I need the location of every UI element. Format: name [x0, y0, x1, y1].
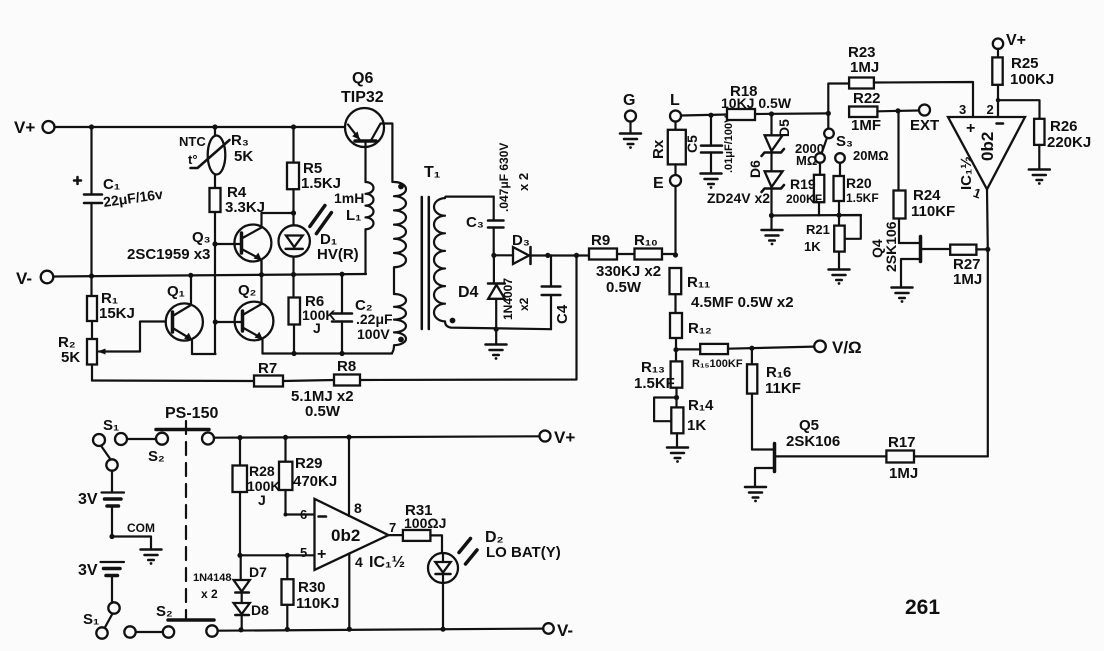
resistor R31	[388, 530, 442, 553]
resistor R7	[254, 376, 283, 387]
svg-text:R22: R22	[853, 90, 881, 107]
svg-text:0.5W: 0.5W	[606, 279, 642, 296]
svg-text:R29: R29	[295, 455, 323, 472]
svg-text:1K: 1K	[804, 239, 821, 254]
svg-text:.01μF/100V: .01μF/100V	[723, 115, 735, 173]
junction R29/pin6 corner	[284, 513, 288, 517]
transformer T1 primary winding top	[394, 182, 406, 294]
svg-text:L₁: L₁	[346, 207, 361, 224]
svg-text:V/Ω: V/Ω	[832, 338, 862, 357]
svg-text:D4: D4	[458, 284, 479, 301]
svg-text:15KJ: 15KJ	[99, 305, 135, 322]
zener diode D5	[762, 114, 785, 171]
transistor Q1	[166, 275, 216, 354]
svg-text:110KJ: 110KJ	[296, 595, 339, 612]
svg-text:0b2: 0b2	[331, 526, 360, 545]
svg-text:D6: D6	[747, 160, 763, 178]
junction R22/R24	[895, 108, 900, 113]
svg-text:S₁: S₁	[83, 611, 99, 628]
junction V-/Q3 emitter	[259, 272, 264, 277]
junction V+/NTC	[212, 124, 217, 129]
resistor R26	[1034, 119, 1044, 169]
resistor R11	[670, 268, 682, 313]
wire E to R11	[674, 186, 676, 256]
svg-text:R28: R28	[249, 463, 275, 479]
svg-text:IC₁½: IC₁½	[958, 156, 975, 190]
junction R12/R13/R15	[673, 347, 678, 352]
svg-text:5K: 5K	[234, 148, 253, 165]
resistor R17	[886, 451, 914, 463]
svg-text:D7: D7	[249, 564, 267, 580]
transistor Q3	[215, 213, 271, 275]
T1 secondary phase dot	[450, 318, 456, 324]
junction D5 tap	[769, 111, 774, 116]
svg-text:1.5KF: 1.5KF	[634, 375, 675, 392]
svg-text:R₁₀: R₁₀	[634, 232, 658, 249]
resistor R9	[589, 249, 617, 260]
resistor R6	[289, 275, 301, 354]
svg-text:S₁: S₁	[103, 417, 119, 434]
op-amp U1a (IC1 1/2 062)	[948, 117, 1025, 189]
resistor R25	[992, 49, 1002, 117]
ground Q4	[892, 288, 913, 303]
node V+ (battery section)	[540, 428, 576, 447]
svg-text:R₁4: R₁4	[688, 397, 714, 414]
svg-text:Q₃: Q₃	[192, 229, 211, 246]
ground R21	[829, 270, 850, 285]
ground R26	[1029, 170, 1050, 185]
capacitor C1	[74, 127, 102, 275]
wire R25/R26	[998, 100, 1040, 119]
junction V+/C1	[89, 124, 94, 129]
junction C5 tap	[708, 113, 713, 118]
junction D6 ground	[769, 213, 774, 218]
LED D2	[428, 539, 477, 630]
svg-text:4.5MF 0.5W x2: 4.5MF 0.5W x2	[691, 294, 794, 311]
junction E/R10/R11	[673, 252, 678, 257]
svg-text:V-: V-	[16, 269, 32, 288]
junction R30 top	[285, 553, 290, 558]
svg-text:R₁₂: R₁₂	[688, 320, 712, 337]
ground D6	[762, 216, 783, 246]
ground Q5	[745, 487, 766, 502]
junction feedback tap	[574, 253, 579, 258]
svg-text:HV(R): HV(R)	[317, 246, 359, 263]
svg-text:V-: V-	[557, 621, 573, 640]
svg-text:C₃: C₃	[466, 214, 484, 231]
op-amp U1b (IC1 1/2 062)	[315, 499, 389, 570]
svg-text:R₁6: R₁6	[766, 364, 791, 381]
svg-text:R26: R26	[1050, 118, 1078, 135]
resistor R13	[671, 361, 683, 407]
transformer T1 core	[422, 197, 429, 329]
svg-text:V+: V+	[1006, 32, 1026, 49]
wire V+ rail	[55, 126, 349, 128]
svg-text:Q₂: Q₂	[238, 282, 256, 299]
resistor R16	[747, 348, 757, 449]
svg-text:R25: R25	[1011, 55, 1039, 72]
svg-text:1N4007: 1N4007	[501, 278, 515, 320]
wire S1-S2 top	[127, 438, 156, 440]
node E	[653, 175, 681, 192]
svg-text:20MΩ: 20MΩ	[853, 148, 889, 163]
junction R18/R23/S3	[826, 111, 831, 116]
junction R25/pin2	[996, 98, 1000, 102]
svg-text:Q5: Q5	[799, 417, 819, 434]
LED D1	[279, 206, 332, 276]
svg-text:1MJ: 1MJ	[953, 271, 982, 288]
wire COM	[112, 537, 151, 549]
svg-text:x 2: x 2	[201, 587, 218, 601]
svg-text:D₃: D₃	[512, 232, 530, 249]
svg-text:470KJ: 470KJ	[293, 473, 337, 490]
svg-text:x2: x2	[517, 297, 531, 311]
svg-text:TIP32: TIP32	[341, 89, 384, 106]
resistor R18	[727, 109, 828, 120]
junction V+/R5	[291, 124, 296, 129]
resistor R19	[814, 163, 824, 216]
junction pin4 bottom	[347, 627, 352, 632]
junction R21 top	[836, 213, 841, 218]
junction V-/C2	[339, 272, 344, 277]
potentiometer R2	[87, 322, 172, 381]
ground COM	[141, 550, 162, 565]
svg-text:T₁: T₁	[424, 164, 441, 181]
resistor R5	[287, 127, 299, 213]
svg-text:LO BAT(Y): LO BAT(Y)	[486, 544, 561, 561]
wire Q3-base to Q2-base vertical	[214, 244, 216, 354]
svg-text:Rx: Rx	[650, 139, 667, 159]
svg-text:R30: R30	[298, 579, 326, 596]
junction C3/D3/D4	[491, 253, 496, 258]
svg-text:3: 3	[959, 102, 966, 117]
resistor R4	[210, 188, 221, 244]
svg-text:S₂: S₂	[156, 603, 173, 620]
svg-text:PS-150: PS-150	[165, 405, 218, 422]
svg-text:100V: 100V	[357, 326, 390, 342]
junction D2 bottom	[440, 627, 445, 632]
svg-text:NTC: NTC	[179, 134, 206, 149]
junction COM	[109, 534, 114, 539]
resistor R28	[233, 438, 248, 556]
ground C5	[701, 174, 722, 189]
resistor R20	[834, 163, 844, 215]
svg-text:J: J	[313, 320, 321, 336]
switch S1 bottom	[96, 602, 119, 638]
svg-text:3V: 3V	[78, 562, 98, 579]
svg-text:0.5W: 0.5W	[305, 403, 341, 420]
battery B2 3V	[101, 562, 125, 602]
svg-text:1N4148: 1N4148	[193, 572, 232, 584]
resistor R30	[282, 555, 294, 629]
switch S1 top	[93, 433, 127, 471]
svg-text:10KJ 0.5W: 10KJ 0.5W	[721, 95, 792, 111]
svg-text:R19: R19	[790, 176, 816, 192]
svg-text:R7: R7	[258, 360, 277, 377]
svg-text:MΩ: MΩ	[796, 153, 817, 168]
ground G	[620, 122, 641, 149]
svg-text:+: +	[317, 546, 326, 563]
resistor R29	[279, 437, 315, 514]
junction D4 ground	[494, 327, 499, 332]
switch S2 bottom	[124, 620, 217, 638]
svg-text:R24: R24	[913, 187, 941, 204]
svg-text:110KF: 110KF	[911, 203, 955, 220]
junction R29 top	[283, 435, 288, 440]
resistor R1	[87, 276, 97, 339]
svg-text:.047μF 630V: .047μF 630V	[497, 143, 511, 212]
svg-text:1.5KF: 1.5KF	[846, 191, 879, 205]
junction V-/D1	[291, 272, 296, 277]
transformer T1 secondary winding	[434, 197, 551, 330]
capacitor C5	[701, 115, 722, 172]
zener diode D6	[762, 171, 785, 215]
svg-text:E: E	[653, 175, 664, 192]
node V+ (top right)	[993, 32, 1026, 49]
battery B1 3V	[102, 471, 125, 537]
svg-text:R9: R9	[591, 232, 610, 249]
svg-text:2SC1959 x3: 2SC1959 x3	[127, 246, 210, 263]
junction D8 bottom	[238, 627, 243, 632]
junction R16 tap	[749, 346, 754, 351]
svg-text:R17: R17	[888, 434, 916, 451]
resistor R12	[670, 313, 682, 361]
junction pin8 top	[346, 435, 351, 440]
svg-text:R20: R20	[846, 175, 872, 191]
svg-text:x 2: x 2	[516, 173, 531, 191]
capacitor C4	[542, 255, 561, 329]
svg-text:R21: R21	[806, 222, 830, 237]
svg-text:220KJ: 220KJ	[1047, 134, 1091, 151]
svg-text:11KF: 11KF	[765, 380, 801, 397]
ground T1 secondary	[486, 329, 507, 360]
potentiometer R21	[834, 215, 861, 268]
junction R28 top	[237, 435, 242, 440]
wire pin5	[240, 554, 315, 556]
svg-text:1K: 1K	[687, 417, 706, 434]
svg-text:2: 2	[987, 102, 994, 117]
junction Q3 base	[212, 241, 217, 246]
svg-text:Q6: Q6	[352, 70, 373, 87]
resistor Rx	[668, 122, 686, 176]
wire D6/R19/R21 bottoms	[772, 214, 862, 217]
wire R9-R10	[617, 253, 635, 255]
svg-text:2SK106: 2SK106	[786, 433, 840, 450]
svg-text:R₁₅100KF: R₁₅100KF	[692, 358, 743, 370]
svg-text:V+: V+	[554, 428, 575, 447]
switch S3	[815, 113, 845, 162]
svg-text:t°: t°	[188, 152, 198, 167]
svg-text:G: G	[623, 92, 635, 109]
diode D4	[488, 255, 505, 329]
svg-text:COM: COM	[127, 521, 155, 535]
svg-text:S₂: S₂	[148, 448, 165, 465]
svg-text:C4: C4	[554, 304, 571, 324]
svg-text:261: 261	[905, 596, 940, 619]
svg-text:3.3KJ: 3.3KJ	[225, 199, 265, 216]
svg-text:330KJ x2: 330KJ x2	[596, 263, 661, 280]
svg-text:D5: D5	[776, 119, 792, 137]
svg-text:0b2: 0b2	[978, 132, 997, 161]
svg-text:2SK106: 2SK106	[883, 221, 899, 272]
svg-text:S₃: S₃	[836, 133, 853, 150]
svg-text:4: 4	[355, 554, 363, 570]
junction Q2 base	[213, 319, 218, 324]
wire R10 to E node	[662, 253, 676, 255]
svg-text:J: J	[258, 492, 266, 508]
wire V+ rail (battery section)	[214, 436, 540, 437]
svg-text:1MF: 1MF	[851, 117, 881, 134]
ground R14	[667, 448, 688, 463]
junction V-/Q1 collector	[188, 273, 193, 278]
resistor R24	[894, 111, 906, 243]
junction R6 bottom	[291, 351, 296, 356]
node V+	[14, 118, 55, 137]
wire U1b pin 8	[348, 437, 350, 516]
resistor R8	[334, 375, 360, 386]
svg-text:R₁₃: R₁₃	[641, 359, 665, 376]
diode D3	[494, 247, 589, 264]
svg-text:C5: C5	[684, 135, 700, 153]
T1 primary phase dot bottom	[398, 337, 404, 343]
wire emitter rail y353	[263, 352, 393, 354]
diode D8	[234, 603, 250, 630]
junction R13/R14	[674, 395, 679, 400]
resistor R23	[828, 78, 973, 118]
svg-text:V+: V+	[14, 118, 35, 137]
transistor Q6	[345, 108, 392, 182]
svg-text:1mH: 1mH	[334, 190, 364, 206]
svg-text:R8: R8	[337, 358, 356, 375]
svg-text:6: 6	[300, 507, 307, 522]
junction D1 top	[262, 210, 297, 215]
svg-text:7: 7	[389, 520, 396, 535]
diode D7	[234, 555, 250, 603]
transistor Q4 (JFET)	[899, 237, 950, 287]
svg-text:+: +	[966, 120, 975, 137]
junction C2 bottom	[339, 351, 344, 356]
wire feedback R7/R8	[92, 255, 577, 381]
node EXT	[910, 105, 939, 135]
node G	[623, 92, 636, 122]
svg-text:100KJ: 100KJ	[1010, 71, 1054, 88]
svg-text:EXT: EXT	[910, 117, 939, 134]
wire L to R18	[681, 115, 727, 116]
svg-text:D8: D8	[251, 602, 269, 618]
svg-text:1MJ: 1MJ	[889, 465, 918, 482]
resistor R27	[950, 245, 988, 255]
resistor R15	[676, 344, 814, 354]
svg-text:8: 8	[354, 500, 362, 516]
svg-text:200KF: 200KF	[786, 192, 822, 206]
svg-text:C₁: C₁	[103, 176, 120, 193]
junction pin5	[237, 553, 242, 558]
switch S2 top	[156, 430, 214, 445]
resistor R22	[849, 107, 919, 118]
transformer T1 primary winding bottom	[392, 294, 406, 353]
svg-text:5K: 5K	[61, 349, 80, 366]
junction C4 top	[545, 253, 550, 258]
svg-text:.22μF: .22μF	[356, 311, 393, 327]
transistor Q5 (JFET)	[752, 444, 886, 486]
junction R27/output	[985, 247, 990, 252]
svg-text:100ΩJ: 100ΩJ	[404, 515, 446, 531]
potentiometer R14	[654, 398, 683, 447]
capacitor C3	[488, 197, 504, 256]
thermistor R3 (NTC)	[191, 127, 230, 188]
inductor L1	[366, 182, 374, 274]
svg-text:1MJ: 1MJ	[850, 59, 879, 76]
resistor R10	[635, 249, 663, 260]
svg-text:ZD24V x2: ZD24V x2	[707, 190, 770, 206]
PS-150 dashed boundary	[185, 421, 187, 618]
wire V- rail	[53, 274, 366, 277]
transistor Q2	[215, 261, 273, 354]
junction R30 bottom	[285, 627, 290, 632]
node V- (battery section)	[543, 621, 573, 640]
wire op-amp output to R17	[914, 189, 988, 456]
wire U1b pin 4	[348, 553, 350, 629]
svg-text:L: L	[670, 92, 680, 109]
capacitor C2	[332, 275, 352, 354]
svg-text:R₃: R₃	[231, 132, 249, 149]
wire V- rail (battery section)	[218, 629, 544, 631]
svg-text:Q₁: Q₁	[167, 283, 185, 300]
node V/Ω	[814, 338, 862, 357]
svg-text:5: 5	[300, 545, 307, 560]
svg-text:R₁₁: R₁₁	[687, 274, 710, 291]
node V-	[16, 269, 53, 288]
junction V-/R1	[89, 273, 94, 278]
node L	[670, 92, 681, 122]
svg-text:3V: 3V	[78, 491, 98, 508]
svg-text:IC₁½: IC₁½	[369, 554, 405, 571]
T1 primary phase dot top	[398, 184, 404, 190]
